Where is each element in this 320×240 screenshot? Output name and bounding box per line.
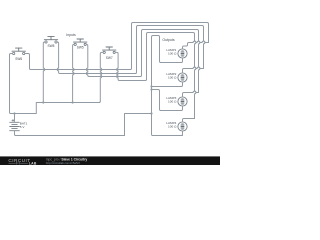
wire SW5 right pin drop [86, 44, 89, 76]
lamp LAMP4 [166, 121, 187, 131]
battery BAT1 [10, 119, 28, 130]
CircuitLab logo wire and LAB [9, 162, 37, 166]
svg-text:CIRCUIT: CIRCUIT [8, 158, 30, 163]
wire LAMP4 return stub [181, 131, 182, 135]
svg-text:Inputs: Inputs [66, 33, 76, 37]
wire feed loop SW6 to LAMP1 [130, 23, 208, 70]
wire feed loop SW5 to LAMP3 [140, 30, 200, 93]
wire feed line SW5 to LAMP3 [89, 76, 140, 78]
footer title text [46, 157, 88, 161]
junction supply SW5 [72, 101, 74, 103]
svg-text:SW7: SW7 [106, 56, 113, 60]
wire SW7 left pin drop [100, 52, 103, 101]
label Inputs [66, 33, 76, 37]
wire feed loop SW8 to LAMP2 [135, 26, 205, 74]
label Outputs [162, 38, 175, 42]
svg-text:100 Ω: 100 Ω [168, 52, 177, 56]
switch SW8 [44, 37, 57, 48]
svg-text:SW5: SW5 [77, 46, 84, 50]
wire feed line SW8 to LAMP2 [60, 73, 135, 75]
lamp LAMP3 [166, 96, 187, 106]
wire SW6 left pin to battery + [10, 54, 15, 114]
wire LAMP3 top feed [183, 91, 199, 97]
wire SW8 left pin to supply bus [43, 42, 45, 103]
wire LAMP3 return [152, 90, 183, 111]
wire SW6 right pin drop [25, 54, 31, 70]
switch SW6 [12, 48, 25, 61]
wire battery - to bottom rail [15, 131, 125, 135]
switch SW7 [103, 47, 116, 60]
wire LAMP4 top feed [183, 119, 195, 122]
svg-text:SW6: SW6 [15, 57, 22, 61]
CircuitLab logo CIRCUIT [8, 158, 30, 163]
wire feed loop SW7 to LAMP4 [145, 33, 196, 119]
lamp LAMP1 [166, 48, 187, 58]
wire SW5 left pin to supply bus [73, 44, 75, 102]
svg-text:100 Ω: 100 Ω [168, 76, 177, 80]
junction supply SW8 [42, 101, 44, 103]
svg-text:SW8: SW8 [48, 44, 55, 48]
junction return LAMP3 [150, 88, 152, 90]
wire SW8 right pin drop [57, 42, 60, 74]
junction battery top [13, 112, 15, 114]
wire supply bus [15, 101, 101, 113]
wire feed line SW7 to LAMP4 [119, 80, 145, 82]
wire LAMP1 return [160, 37, 183, 63]
svg-text:100 Ω: 100 Ω [168, 125, 177, 129]
junction return LAMP2 [150, 85, 152, 87]
wire SW7 right pin drop [115, 52, 119, 80]
wire LAMP2 return [152, 82, 183, 86]
wire LAMP1 top feed [183, 41, 209, 49]
svg-text:100 Ω: 100 Ω [168, 100, 177, 104]
footer bar [0, 156, 220, 165]
footer url text [46, 161, 80, 165]
lamp LAMP2 [166, 72, 187, 82]
svg-text:LAB: LAB [29, 162, 37, 165]
wire bottom rail riser [125, 114, 152, 136]
wire feed line SW6 to LAMP1 [31, 69, 130, 71]
svg-text:Outputs: Outputs [162, 38, 175, 42]
wire battery + stub [14, 114, 16, 122]
switch SW5 [74, 39, 87, 50]
wire LAMP2 top feed [183, 67, 204, 73]
junction return rail [150, 112, 152, 114]
wire return loop riser to LAMP4 bottom [152, 36, 183, 136]
svg-text:http://circuitlab.com/c/5a5zf: http://circuitlab.com/c/5a5zf [46, 161, 80, 165]
